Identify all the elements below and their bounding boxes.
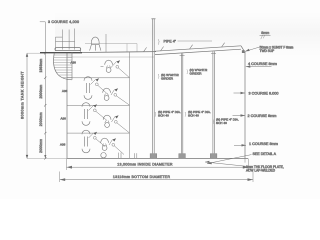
svg-text:A36: A36 <box>61 116 67 120</box>
wire: roof line left <box>82 51 156 54</box>
node nozzle pipe row4 <box>82 130 105 153</box>
node column C1 center mast PIPE 4" <box>150 19 157 159</box>
node nozzle pipe row3 <box>82 103 107 126</box>
node pipe label 3 <box>213 118 239 126</box>
wire: dim2 bottom diameter <box>60 172 253 183</box>
svg-text:A36: A36 <box>62 89 68 93</box>
svg-text:8mm: 8mm <box>261 31 269 35</box>
wire: bottom extension <box>27 158 67 160</box>
svg-text:13,000mm INSIDE DIAMETER: 13,000mm INSIDE DIAMETER <box>117 163 173 167</box>
svg-text:SCH 40: SCH 40 <box>158 114 169 118</box>
node girder label 2 <box>187 68 208 76</box>
wire: tank floor <box>67 157 249 159</box>
node column C2 <box>179 53 186 158</box>
svg-text:TWD SUP: TWD SUP <box>260 49 275 53</box>
svg-text:2 COURSE 8mm: 2 COURSE 8mm <box>248 114 277 118</box>
node 1 COURSE 8mm label <box>234 142 278 147</box>
node floor manhole circle <box>101 153 106 158</box>
wire: course line 3 <box>67 132 130 134</box>
wire: tank left shell <box>66 53 68 158</box>
wire: girder end piece to corner <box>241 46 244 52</box>
node gooseneck vent <box>90 37 101 51</box>
wire: roof girder top flange <box>155 46 241 51</box>
node floor plate label <box>205 161 284 173</box>
node nozzle flask row2 <box>103 88 130 105</box>
node pipe label 2 <box>185 110 211 118</box>
svg-text:GIRDER: GIRDER <box>190 72 203 76</box>
node platform <box>55 48 81 53</box>
node stairway <box>53 52 72 80</box>
wire: outer height dimension line <box>26 53 28 158</box>
wire: course dimension line <box>44 22 46 160</box>
wire: under-roof faint line <box>67 56 154 58</box>
wire: roof tick left of mast <box>144 47 147 51</box>
svg-text:8000mm TANK HEIGHT: 8000mm TANK HEIGHT <box>21 71 25 119</box>
node 4 COURSE 8mm label <box>246 62 277 68</box>
wire: course line 1 <box>67 77 130 79</box>
svg-text:2000mm: 2000mm <box>39 84 43 98</box>
node handrail <box>56 29 75 50</box>
wire: roof line left thick <box>40 52 82 54</box>
svg-text:2000mm: 2000mm <box>39 139 43 153</box>
wire: girder tick 3 <box>222 43 225 47</box>
node girder label 1 <box>158 73 179 81</box>
node nozzle pipe row2 <box>84 77 108 100</box>
node pipe label 1 <box>155 110 181 118</box>
node top angle label <box>245 45 294 53</box>
svg-text:ACW LAP-WELDED: ACW LAP-WELDED <box>246 168 276 172</box>
svg-text:3 COURSE 8.000: 3 COURSE 8.000 <box>249 91 279 95</box>
wire: tank right shell <box>244 52 246 159</box>
svg-text:GIRDER: GIRDER <box>161 77 174 81</box>
wire: roof girder bottom flange <box>155 49 241 54</box>
node 3 COURSE 4,000 top label <box>40 21 46 23</box>
svg-text:PIPE 4": PIPE 4" <box>164 39 177 43</box>
wire: course line 2 <box>67 104 130 106</box>
svg-text:SCH 40: SCH 40 <box>216 121 227 125</box>
node 3 COURSE 8.000 label <box>234 91 279 95</box>
wire: roof handrail <box>85 34 137 52</box>
node cells right boundary <box>129 52 131 158</box>
node SEE DETAIL A label <box>207 152 277 164</box>
svg-text:13116mm BOTTOM DIAMETER: 13116mm BOTTOM DIAMETER <box>113 175 170 179</box>
svg-text:4 COURSE 8mm: 4 COURSE 8mm <box>248 62 277 66</box>
node nozzle flask row1 <box>101 60 130 77</box>
wire: top extension to shell <box>27 52 44 54</box>
svg-text:SEE DETAIL A: SEE DETAIL A <box>253 152 277 156</box>
node column C3 <box>210 51 217 158</box>
svg-text:2000mm: 2000mm <box>39 112 43 126</box>
wire: dim1 inside diameter <box>67 159 249 170</box>
node nozzle flask row3 <box>103 115 129 133</box>
svg-text:A36: A36 <box>60 143 66 147</box>
svg-text:1 COURSE 8mm: 1 COURSE 8mm <box>249 142 278 146</box>
wire: girder tick 2 <box>190 45 193 49</box>
wire: girder tick 1 <box>161 47 164 51</box>
node top angle corner <box>242 50 245 53</box>
node 2 COURSE 8mm label <box>233 114 277 118</box>
node nozzle flask row4 <box>101 138 124 154</box>
node floor nozzle stubs <box>119 153 137 159</box>
svg-text:SCH 40: SCH 40 <box>188 114 199 118</box>
svg-text:1993mm: 1993mm <box>39 58 43 72</box>
svg-text:3 COURSE 4,000: 3 COURSE 4,000 <box>48 20 79 24</box>
node 8mm weld label top right <box>260 31 271 39</box>
node PIPE 4" label <box>158 39 212 45</box>
